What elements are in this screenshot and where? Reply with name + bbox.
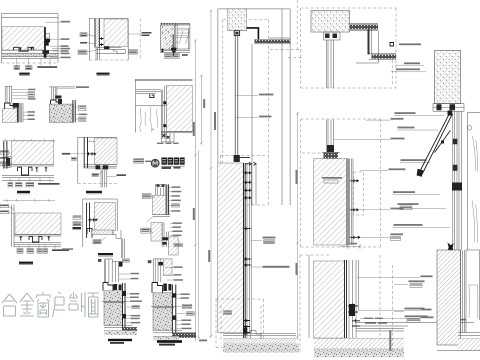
detail P hook profile [150,94,154,98]
S2 sill dashed frame [300,255,380,352]
detail K right leaders [169,187,171,211]
detail H leader diagonals [9,206,15,214]
detail L right labels [172,222,182,246]
detail I sill band hatch [92,230,113,235]
detail E frame verticals [52,87,57,100]
S5 frame verticals [461,250,467,333]
S1 dashed frame [221,20,269,205]
S3 label i [393,226,450,228]
watermark glyph 金 [20,293,34,316]
detail C anchor mark [161,48,164,52]
detail I caption [98,253,113,256]
detail G head dark marks [96,165,109,169]
detail B jamb verticals [96,48,99,61]
detail I slab hatch [94,203,115,231]
S1 sill label box [224,310,232,314]
detail B sill lines [96,48,125,54]
detail P frame verticals [161,86,166,139]
S2 leader track2 [360,236,390,238]
detail A sill lines [2,50,59,58]
S2 lower chord dark band [369,54,396,60]
S5 floor hatch band [458,339,480,351]
detail B right boundary dash [139,19,141,61]
S2 mid dim line [296,112,299,340]
detail D sill dark mark [13,103,19,108]
detail N left label [148,260,152,263]
detail C label box 2 [173,54,180,59]
detail F label box 1 [8,182,13,187]
detail G label leader [98,171,116,176]
detail N floor dark band [172,333,196,338]
detail P shelf profile [136,90,161,94]
S4 open sash long arm [420,112,453,175]
detail P wood grain squiggles [140,107,158,132]
detail C frame outline [174,24,190,49]
detail M right labels [130,293,142,323]
detail N top dark marks [159,262,164,265]
detail K top dark marks [157,185,165,187]
detail P bottom frame marks [162,134,169,139]
detail C top lines [160,23,190,25]
S1 wall hatch tall [218,163,244,333]
title bubble circle [151,159,159,167]
detail E anchor dark [56,96,63,105]
detail C frame blobs [171,48,176,53]
S5 wall hatch tall [437,250,461,345]
detail H left labels [0,204,9,213]
S5 leader a [394,283,408,285]
S1 sill dark blob [243,328,247,335]
detail P left edge [134,79,136,132]
S1 dim text rotated [193,122,195,136]
S1 floor concrete [223,344,299,353]
detail N anchor dark [163,284,171,292]
detail M anchor dark [114,284,122,290]
S2 anchor arrows mid [350,179,359,182]
detail P bottom frame boxes [161,133,174,142]
detail I jamb verticals below [121,239,124,259]
S1 mullion [235,36,238,157]
detail B left label 2 [80,42,87,44]
S2 mid dashed frame [301,119,381,247]
S4 sash bottom blob [417,169,424,177]
detail I sill step [113,230,121,239]
S2 frame bottom marks [327,145,334,152]
detail K outboard label box [134,159,144,164]
detail B slab hatch [104,19,128,47]
detail N right labels upper [173,266,183,280]
S5 rotated side text [389,330,391,351]
detail G left label text [62,153,70,155]
S2 sill alignment dash [302,152,324,154]
S1 mullion cap dark [234,31,239,36]
S5 floor band bottom [437,350,480,352]
detail F callout ticks [10,178,50,183]
detail C leader tick down [172,53,175,56]
detail B sill dark [104,46,110,49]
detail A frame foot dark [43,51,50,58]
S1 leader label 1 [236,94,258,96]
detail F leader diagonals [9,152,14,164]
S2 leader bolt [358,310,420,312]
S4 panel reflection curves [472,136,478,243]
detail K frame nest [155,184,165,195]
S1 anchor t2 [243,181,251,184]
S4 scissor arm [435,131,451,153]
detail N floor step [153,330,196,336]
detail H bolt marks [20,236,50,240]
detail H boundary [12,205,15,248]
S2 left boundary bottom [308,255,310,338]
detail C bottom lines [160,50,190,52]
detail M top-right label [123,259,130,262]
detail E furring band [73,100,75,122]
detail G right label [117,174,127,176]
S4 sash top pivot dark [448,111,453,116]
detail M band dark marks [122,291,126,319]
S1 sill step white [251,331,262,339]
S2 dim 100 [340,244,362,249]
detail G slab hatch [95,138,118,164]
S4 frame column verticals [453,111,462,250]
detail M floor dark band [122,327,137,332]
watermark glyph 窗 [37,292,51,317]
detail N frame verticals [153,259,163,282]
detail D lower leaders [23,112,27,119]
detail F wall band [4,141,7,169]
S1 mid junction arrows [238,158,256,166]
S4 arm pivot [441,141,444,144]
S3 label f [400,162,430,164]
detail I sill label [93,240,101,244]
S1 anchor t5 [243,227,251,230]
S2 head frame profile [324,32,341,40]
detail M right leaders [126,294,132,323]
detail E frame step [51,100,61,104]
S1 glass lines [247,163,256,338]
S3 label a [399,43,421,45]
S2 leader 8steel [334,139,390,141]
S2 sill tiny labels [364,318,387,324]
S2 far label on long line [452,319,466,321]
S2 lintel hatch [311,11,350,33]
detail F label box 3 [26,182,34,187]
detail H caption [19,262,33,265]
S2 anchor t mid1 [350,208,359,211]
S2 floor concrete [314,349,404,358]
detail P dim line [200,75,203,145]
detail H label string [52,249,69,251]
detail F bolt marks [36,167,48,172]
detail A label string [37,66,57,68]
S1 step profile dark [247,28,259,40]
S5 leader b [394,310,404,312]
detail H label box 3 [37,249,42,254]
detail H top dim [3,199,55,202]
detail A caption [19,73,30,76]
detail A label ceiling [61,21,71,23]
S4 head frame band [433,104,464,112]
detail B wall band [95,19,99,48]
S3 label b [395,64,424,66]
detail A boundary top lines [2,14,59,63]
S2 left dashes top [296,0,298,50]
S1 ceiling dark band [255,40,291,43]
detail C dense hatch block [160,25,174,49]
detail E concrete block [49,104,73,122]
detail F label string [38,183,60,185]
detail G anchor cluster [87,152,96,155]
detail I label leader [101,237,106,241]
detail A callout ticks [17,59,51,66]
S5 left dashed datum [392,265,394,352]
detail A bottom boundary [2,62,59,64]
S1 dim line 2 [209,10,212,338]
S5 sill lines [458,333,480,339]
detail L left label [141,228,150,233]
detail P anchor bar upper [163,101,171,104]
detail P wall hatch [167,86,193,132]
detail A ceiling leader [45,21,60,23]
detail I anchor cluster [88,218,97,221]
detail H curtain channel [29,237,42,242]
detail P bottom tiny labels [157,143,179,144]
detail M caption [108,339,132,344]
detail A leaders right [50,39,60,57]
S2 frame verticals top [327,40,334,88]
detail H label box 1 [17,249,23,254]
detail A label box 2 [26,66,33,70]
detail G left label box [72,157,77,160]
S3 label h [397,207,446,209]
detail B bottom dash [89,59,128,61]
detail G dim 50 [89,140,95,142]
detail H slab hatch [15,213,61,234]
detail F left labels [0,151,9,166]
S3 datum mark [390,43,394,47]
S2 leader 20steel [360,170,388,172]
detail N band dark marks [172,293,176,320]
S2 anchor cluster bottom [348,304,358,315]
S2 wall hatch bottom [314,261,345,338]
detail D leader labels [28,89,36,100]
detail C inner dark strip [173,34,175,49]
S2 wall hatch mid [314,159,348,246]
detail N right leaders upper [165,267,173,280]
S4 wall panel hatch [435,51,461,104]
detail K bottom lines [153,215,171,217]
S1 top beam outline [268,9,290,205]
detail D lower labels [27,111,35,120]
S1 bottom dashed frame [216,299,264,348]
S2 step dark vertical [368,30,372,55]
detail F frame blob left [5,157,12,168]
detail I sill corner profile [87,228,92,237]
S2 sill dark blob [349,304,355,316]
detail B left label 1 [80,33,87,37]
detail P anchor bar lower [163,124,171,127]
S2 wall inner label [322,177,342,183]
S1 leader anchor text [251,266,262,268]
S4 right panel [468,113,480,251]
detail M mid joint line [102,301,126,302]
S3 label d [394,115,444,117]
detail G boundary [78,137,117,183]
detail D frame verticals [5,86,11,103]
detail N concrete block [153,293,172,330]
detail C label box 1 [165,54,172,59]
detail B sill step [113,49,125,53]
S1 anchor t1 [243,171,251,174]
detail G bottom dash [78,183,117,185]
S4 panel circle [467,126,472,131]
detail M top dark blob [119,262,123,267]
detail F curtain channel [18,167,33,175]
detail K left label [142,194,151,199]
S2 right step verticals [356,31,379,64]
detail M leaders upper [119,274,130,279]
detail A slab hatch [2,27,44,50]
S2 furring verticals mid [347,159,349,246]
detail N caption [157,340,182,345]
detail F sill lines [2,164,54,180]
detail C top dotted row [161,23,176,25]
detail I left labels [73,216,82,230]
detail A bolt mark left [19,47,21,50]
S2 leader sill2 [358,209,390,211]
detail D wall hatch [2,109,17,123]
S3 dashed datum top [392,55,394,86]
S1 floor lines [223,334,296,344]
watermark glyph 户 [53,292,66,317]
S5 panel curve mark [469,285,478,318]
detail G leader [70,153,86,155]
detail B left label 3 [78,50,87,54]
detail G head lines [84,164,117,168]
detail B anchor marks [100,37,104,46]
detail I bottom-left tiny label [62,248,73,250]
detail C hatch dots overlay [162,27,177,50]
S1 dim line left [194,39,197,341]
detail M base concrete [104,331,137,335]
detail G jamb verticals below [101,168,107,188]
detail P bottom lines [161,132,193,133]
detail H callout ticks [19,245,55,249]
S2 top chord dark band [350,24,379,31]
S1 inner verticals [252,9,282,205]
S2 head frame marks [325,34,337,39]
S2 anchor marks lower [352,319,360,326]
S3 label c [391,71,426,73]
detail P dim rotated text [203,99,205,108]
detail D sill step [5,103,14,109]
detail N mid joint [151,306,176,307]
watermark glyph 剖 [69,292,85,317]
detail F label box 2 [16,182,23,187]
S1 anchor t6 [243,258,251,267]
detail L lower hatch [169,237,179,255]
S2 anchor t mid2 [350,236,360,239]
detail L wall hatch [151,222,162,241]
detail E top leader [57,87,76,89]
S1 window frame verticals [244,163,246,338]
detail N base concrete [153,336,179,340]
detail A plaster band [2,54,58,57]
S2 frame verticals mid [327,120,334,153]
S4 bottom hinge X blob [447,243,454,253]
detail L frame dark marks [163,237,169,244]
detail P top double line [135,79,192,80]
S1 mid junction dark [234,155,240,162]
S1 alignment dashes [270,50,302,58]
detail E leaders right [75,107,78,119]
S1 dim2 text rotated [214,112,216,130]
detail P wood area top line [135,105,166,107]
S2 mid dim text [296,170,298,184]
detail C label 3 [182,54,188,56]
detail D leaders [12,90,28,99]
detail H label box 2 [27,249,34,254]
S1 sill anchor cluster [243,319,250,334]
S1 leader track [251,240,262,242]
detail E right labels [79,105,88,121]
detail A right labels [61,38,71,58]
S3 label e [397,129,438,131]
detail A frame blob [46,39,51,46]
detail H label box 4 [43,249,48,254]
detail D furring band [17,103,18,122]
detail C glazing slashes [179,31,190,44]
S1 anchor t4 [243,196,251,199]
detail K wall hatch [153,195,166,215]
detail M top-left label [98,259,101,262]
detail G caption [86,191,102,194]
detail B right label box [129,50,138,54]
detail C frame verticals [176,24,190,49]
detail B leader diagonals [87,35,98,53]
detail N top wall hatch strip [163,259,172,276]
watermark glyph 面 [88,293,99,317]
detail A curtain track channel [14,47,34,51]
title text block [162,158,185,170]
detail P wood dot [152,129,153,130]
S2 leader 50 [357,276,420,278]
S1 ceiling band lines [254,39,290,44]
S2 lintel dashed frame [301,8,397,88]
S2 label top right [366,119,390,121]
S1 floor hatch band [223,339,296,344]
detail E top label [76,86,89,88]
detail M concrete block [104,291,122,325]
S2 sill block dark [322,153,340,159]
detail K furring verticals [167,184,169,214]
detail F caption [17,191,30,194]
detail L right leaders [170,223,180,241]
S1 leader label 2 [236,116,258,118]
detail L frame profile [162,222,168,247]
detail M base step [103,283,113,291]
detail G wall band [84,137,87,168]
detail N base step [152,283,163,293]
S4 meeting rail dark [452,183,462,191]
detail B boundary [89,19,128,61]
detail D finish lines [20,103,23,122]
S1 anchor t3 [243,189,251,192]
detail M leader labels upper [130,273,139,280]
S2 leader step [360,317,420,319]
detail F top dim line [3,139,56,142]
watermark glyph 合 [2,294,17,316]
